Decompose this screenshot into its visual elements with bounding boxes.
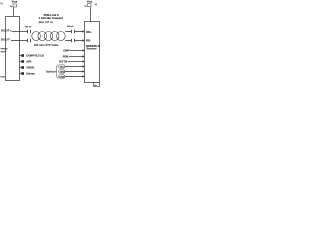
twisted pair cable loops — [32, 32, 65, 41]
svg-text:RSTB: RSTB — [59, 59, 67, 63]
wire SCL to U2 — [65, 66, 83, 68]
svg-text:100 nF: 100 nF — [25, 26, 32, 28]
option pin box SCL — [59, 65, 65, 68]
svg-text:100 ohm STP Cable: 100 ohm STP Cable — [34, 44, 59, 47]
svg-text:RD-: RD- — [86, 39, 91, 43]
svg-text:DOUT+: DOUT+ — [1, 28, 12, 32]
svg-text:SCL: SCL — [60, 67, 65, 69]
svg-text:100 nF: 100 nF — [67, 26, 74, 28]
arrowheads into U2 — [83, 30, 85, 77]
svg-text:CMP: CMP — [63, 48, 69, 52]
capacitor C4 series on DOUT- — [28, 39, 31, 43]
wire SDA to U2 — [65, 71, 83, 73]
svg-text:SDA: SDA — [60, 71, 65, 74]
wire DOUT+ from U1 — [12, 31, 28, 33]
capacitor C3 series on DOUT+ — [28, 30, 31, 34]
capacitor C1 bypass at U1 supply — [13, 4, 17, 7]
capacitor C5 series on RD+ — [72, 30, 75, 34]
tag box on U2 bottom — [94, 83, 100, 87]
wire pin row 3 U1 — [20, 67, 22, 69]
svg-text:AFB: AFB — [26, 60, 31, 63]
wire pin row 2 U1 — [20, 61, 22, 63]
IC U1 left transceiver block — [6, 17, 20, 81]
wire pin row 1 U1 — [20, 55, 22, 57]
svg-text:(1): (1) — [0, 3, 3, 5]
capacitor C2 bypass at U2 supply — [88, 4, 91, 7]
wire RSTB pin to U2 — [68, 61, 84, 63]
svg-text:PDB: PDB — [63, 54, 69, 58]
svg-text:Vcca: Vcca — [12, 2, 18, 4]
wire pin row 4 U1 — [20, 73, 22, 75]
wire DOUT- from U1 — [11, 40, 28, 42]
svg-text:COMPV3.3 (3): COMPV3.3 (3) — [26, 54, 44, 57]
svg-text:Receiver: Receiver — [87, 48, 97, 51]
svg-text:PWDN: PWDN — [1, 48, 8, 50]
svg-text:Vcca: Vcca — [87, 2, 93, 4]
wire RD- into U2 — [65, 40, 83, 42]
svg-text:IO(4): IO(4) — [60, 76, 65, 79]
brace for optional group — [56, 65, 58, 79]
svg-text:INTN: INTN — [1, 52, 7, 54]
terminal pad row 2 — [21, 60, 24, 63]
svg-text:VDDSL: VDDSL — [26, 66, 35, 69]
svg-text:RD+: RD+ — [86, 30, 92, 34]
terminal pad row 4 — [21, 72, 24, 75]
option pin box IO4 — [59, 75, 65, 78]
svg-text:GND: GND — [0, 76, 5, 78]
svg-text:DOUT-: DOUT- — [1, 37, 11, 41]
IC U2 right PHY block — [85, 22, 100, 83]
wire PDB pin to U2 — [69, 56, 83, 58]
terminal pad row 3 — [21, 66, 24, 69]
capacitor C6 series on RD- — [72, 39, 75, 43]
svg-text:Debryn: Debryn — [26, 72, 35, 75]
terminal pad row 1 — [21, 54, 24, 57]
wire IO(4) to U2 — [65, 76, 83, 78]
option pin box SDA — [59, 70, 65, 73]
wire Vcca supply drop to U2 — [90, 7, 92, 21]
wire CMP pin to U2 — [69, 50, 83, 52]
svg-text:1 Pair I&C Coupled: 1 Pair I&C Coupled — [39, 16, 64, 20]
wire Vcca supply drop to U1 — [13, 7, 15, 16]
wire RD+ into U2 — [65, 31, 83, 33]
svg-text:(Max 100 m): (Max 100 m) — [39, 21, 53, 24]
svg-text:(2): (2) — [95, 4, 98, 6]
svg-text:Optional: Optional — [46, 70, 56, 73]
